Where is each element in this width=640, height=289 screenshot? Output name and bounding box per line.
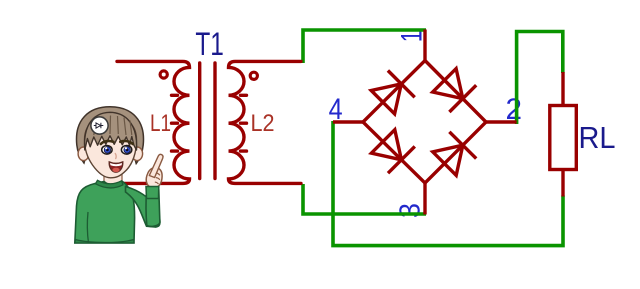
svg-text:RL: RL <box>579 120 616 155</box>
svg-text:T1: T1 <box>195 26 224 62</box>
svg-text:L1: L1 <box>150 110 171 137</box>
svg-text:L2: L2 <box>251 110 275 137</box>
